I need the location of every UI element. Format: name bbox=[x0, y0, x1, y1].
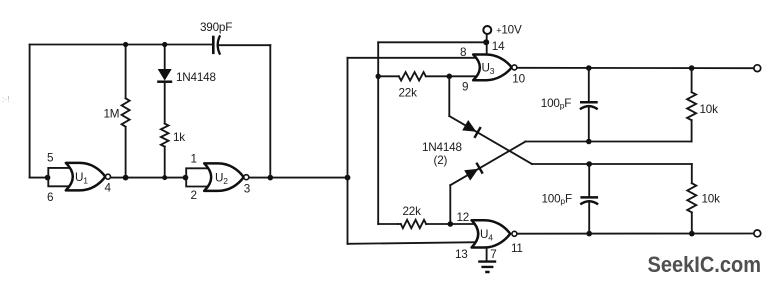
node diode top bbox=[162, 42, 167, 47]
gate U3 output bubble bbox=[512, 65, 517, 70]
svg-text:100pF: 100pF bbox=[541, 97, 571, 111]
resistor R5 10k top stems bbox=[691, 68, 693, 141]
svg-text:SeekIC.com: SeekIC.com bbox=[648, 252, 762, 277]
node pin 9 junction bbox=[447, 74, 453, 80]
capacitor C3 100pF curved plate bbox=[580, 201, 598, 204]
node split junction bbox=[345, 175, 351, 181]
wire U1 output to U2 input bbox=[111, 177, 186, 179]
wire split vertical up to pin 8 / down to pin 13 bbox=[347, 58, 349, 244]
diode D2 1N4148 triangle (upper) bbox=[462, 120, 476, 132]
wire U1 input bracket bbox=[48, 168, 73, 186]
capacitor C3 100pF top plate bbox=[580, 196, 598, 199]
capacitor C2 100pF top plate bbox=[580, 101, 598, 104]
gate U2 output bubble bbox=[244, 175, 249, 180]
diode D1 cathode bar bbox=[157, 80, 172, 83]
node 1M top bbox=[123, 42, 128, 47]
wire U4 output row bbox=[517, 233, 754, 235]
resistor R3 22k upper bbox=[399, 72, 426, 80]
wire pin 8 horizontal bbox=[348, 57, 480, 59]
wire bottom cap upper stem bbox=[588, 164, 590, 196]
node bottom cap lower junction bbox=[586, 231, 592, 237]
gate U4 NOR body bbox=[472, 220, 511, 247]
svg-text:14: 14 bbox=[492, 40, 505, 53]
wire left vertical bbox=[29, 45, 31, 178]
resistor R5 10k top zigzag bbox=[687, 92, 696, 120]
wire pin12 node up stub bbox=[449, 185, 451, 224]
node 1k bottom bbox=[162, 175, 167, 180]
svg-text:22k: 22k bbox=[403, 205, 422, 218]
gate U1 output bubble bbox=[106, 174, 111, 179]
svg-text:1k: 1k bbox=[173, 131, 185, 144]
diode D3 cathode bar bbox=[476, 163, 482, 174]
node bottom 10k lower junction bbox=[689, 231, 695, 237]
svg-text:2: 2 bbox=[191, 189, 197, 202]
wire +10V rail horizontal bbox=[378, 41, 486, 43]
ground symbol bbox=[478, 262, 496, 272]
gate U2 NOR body bbox=[204, 163, 244, 191]
node top cap junction bbox=[586, 65, 592, 71]
svg-text:1: 1 bbox=[191, 153, 197, 166]
svg-text:1N4148: 1N4148 bbox=[422, 141, 462, 154]
wire U2 input bracket bbox=[186, 168, 211, 186]
svg-text:8: 8 bbox=[460, 46, 466, 59]
node pin 12 junction bbox=[448, 221, 454, 227]
svg-text:12: 12 bbox=[457, 211, 470, 224]
wire pin9 node down stub bbox=[448, 76, 450, 116]
wire top rail left segment bbox=[30, 44, 212, 46]
resistor R4 22k lower bbox=[401, 220, 426, 228]
svg-text:100pF: 100pF bbox=[542, 193, 572, 207]
svg-text:(2): (2) bbox=[434, 154, 448, 167]
svg-text:390pF: 390pF bbox=[200, 21, 232, 34]
svg-text::·!: :·! bbox=[2, 94, 10, 104]
terminal output top bbox=[754, 65, 761, 72]
wire bottom-left horizontal to U1 input bbox=[30, 177, 48, 179]
pin 7 stub bbox=[486, 247, 488, 260]
svg-text:4: 4 bbox=[105, 181, 112, 194]
node U2 input junction bbox=[183, 175, 189, 181]
svg-text:1N4148: 1N4148 bbox=[176, 71, 216, 84]
svg-text:+10V: +10V bbox=[496, 23, 522, 36]
diode D3 1N4148 triangle (lower) bbox=[464, 169, 478, 181]
capacitor C2 100pF curved plate bbox=[580, 106, 598, 109]
node 1M bottom bbox=[123, 175, 129, 181]
resistor R6 10k bottom zigzag bbox=[687, 183, 696, 212]
node top cap bottom junction bbox=[586, 139, 592, 145]
wire top rail right segment (cap to corner) bbox=[220, 44, 271, 46]
node feedback junction bbox=[268, 175, 274, 181]
resistor R2 1k bbox=[161, 124, 169, 147]
wire top cap lower stem bbox=[588, 107, 590, 141]
wire 390pF feedback vertical bbox=[269, 45, 271, 177]
svg-text:10k: 10k bbox=[700, 103, 719, 116]
wire diode to 1k bbox=[164, 83, 166, 124]
wire pin 9 left segment bbox=[378, 75, 399, 77]
svg-text:9: 9 bbox=[462, 80, 468, 93]
node pin14 junction bbox=[483, 39, 489, 45]
gate U3 NOR body bbox=[473, 55, 512, 81]
wire U3 output row bbox=[517, 67, 754, 69]
wire bottom cap lower stem bbox=[588, 202, 590, 233]
svg-text:13: 13 bbox=[455, 248, 468, 261]
diode D2 cathode bar bbox=[474, 127, 480, 138]
terminal +10V circle bbox=[483, 26, 491, 34]
wire +10V stem bbox=[486, 34, 488, 55]
wire pin 9 right segment bbox=[426, 75, 479, 77]
svg-text:10k: 10k bbox=[702, 192, 721, 205]
svg-text:6: 6 bbox=[47, 191, 53, 204]
node bottom cap top junction bbox=[586, 161, 592, 167]
wire top cap upper stem bbox=[588, 68, 590, 101]
node top 10k junction bbox=[689, 65, 695, 71]
svg-text:1M: 1M bbox=[104, 108, 120, 121]
svg-text:22k: 22k bbox=[399, 87, 418, 100]
diode D1 triangle bbox=[158, 69, 172, 81]
capacitor C1 390pF left plate bbox=[212, 36, 215, 54]
svg-text:3: 3 bbox=[244, 183, 250, 196]
resistor R1 1M vertical bbox=[125, 45, 127, 99]
gate U1 NOR body bbox=[66, 163, 106, 191]
wire ascending diagonal to upper rail bbox=[450, 142, 525, 186]
svg-text:11: 11 bbox=[511, 242, 523, 255]
wire upper middle rail bbox=[526, 141, 692, 143]
node U1 input junction bbox=[45, 175, 51, 181]
wire descending diagonal to lower rail bbox=[449, 116, 532, 164]
wire +10V rail vertical bbox=[377, 42, 379, 224]
wire pin 13 row bbox=[348, 242, 478, 244]
resistor R6 10k bottom stems bbox=[691, 164, 693, 234]
svg-text:7: 7 bbox=[490, 248, 496, 261]
wire U2 output to split node bbox=[249, 177, 348, 179]
wire lower middle rail bbox=[532, 163, 692, 165]
wire pin 12 row bbox=[378, 223, 398, 225]
svg-text:5: 5 bbox=[47, 152, 54, 165]
gate U4 output bubble bbox=[512, 231, 517, 236]
capacitor C1 390pF right curved plate bbox=[218, 35, 220, 54]
node 22k upper tap bbox=[376, 74, 381, 79]
svg-text:10: 10 bbox=[512, 72, 525, 85]
diode D1 1N4148 vertical wire bbox=[164, 45, 166, 70]
terminal output bottom bbox=[754, 230, 761, 237]
